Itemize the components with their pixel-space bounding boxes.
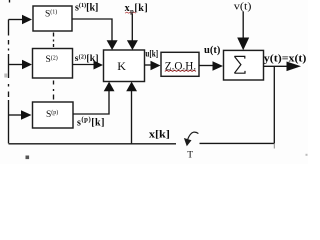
svg-text:S(p): S(p) — [46, 109, 58, 120]
svg-text:s(2)[k]: s(2)[k] — [75, 53, 99, 64]
svg-text:x[k]: x[k] — [149, 129, 170, 140]
svg-text:y(t)=x(t): y(t)=x(t) — [264, 53, 307, 64]
svg-text:u[k]: u[k] — [145, 49, 158, 59]
svg-text:v(t): v(t) — [234, 1, 252, 12]
svg-text:xp[k]: xp[k] — [125, 3, 149, 15]
svg-text:s(1)[k]: s(1)[k] — [75, 2, 98, 13]
svg-text:S(2): S(2) — [46, 54, 58, 65]
svg-text:K: K — [117, 59, 126, 73]
svg-text:T: T — [187, 150, 193, 160]
svg-text:s(p)[k]: s(p)[k] — [77, 116, 105, 128]
svg-text:Z.O.H.: Z.O.H. — [165, 59, 196, 73]
svg-text:u(t): u(t) — [204, 45, 220, 56]
svg-text:S(1): S(1) — [45, 9, 57, 20]
